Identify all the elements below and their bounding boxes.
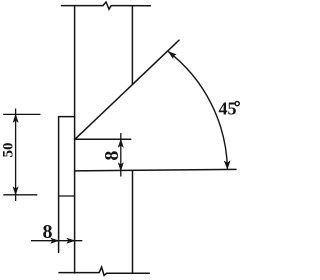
angle arc 45deg [168,52,227,169]
lower member top edge [75,169,236,171]
dimension 50 [3,109,75,202]
wire left column flange (full height) [74,6,76,273]
svg-text:50: 50 [1,143,17,158]
extension line top [3,113,40,115]
svg-text:8: 8 [43,221,53,243]
wire right column flange upper part [131,6,133,84]
svg-text:8: 8 [101,151,123,161]
arrow 8bot right [67,238,75,243]
weld root upper edge [75,138,131,140]
arrow 8mid bottom [118,163,123,171]
arrow arc top [168,52,176,59]
wire top chord with break symbol [62,2,151,9]
extension line bottom across plate [59,195,75,197]
dimension 8 bottom [31,240,82,242]
extension line bottom [3,194,37,196]
arrow 50 bottom [13,187,18,195]
degree symbol [235,102,239,106]
wire right column flange lower part [132,171,134,273]
dimension line 8 middle [120,133,122,177]
dimension line 50 [15,109,17,202]
svg-text:45: 45 [219,99,237,119]
arrow 50 top [13,114,18,122]
arrow arc bottom [224,161,230,169]
arrow 8bot left [51,238,59,243]
dimension 8 middle [120,133,122,177]
dimension line 8 bottom [31,240,82,242]
bevel edge 45deg [75,40,179,139]
wire bottom chord with break symbol [59,267,149,275]
backing plate left edge [58,117,60,253]
arrow 8mid top [118,139,123,147]
backing plate top edge [59,116,75,118]
